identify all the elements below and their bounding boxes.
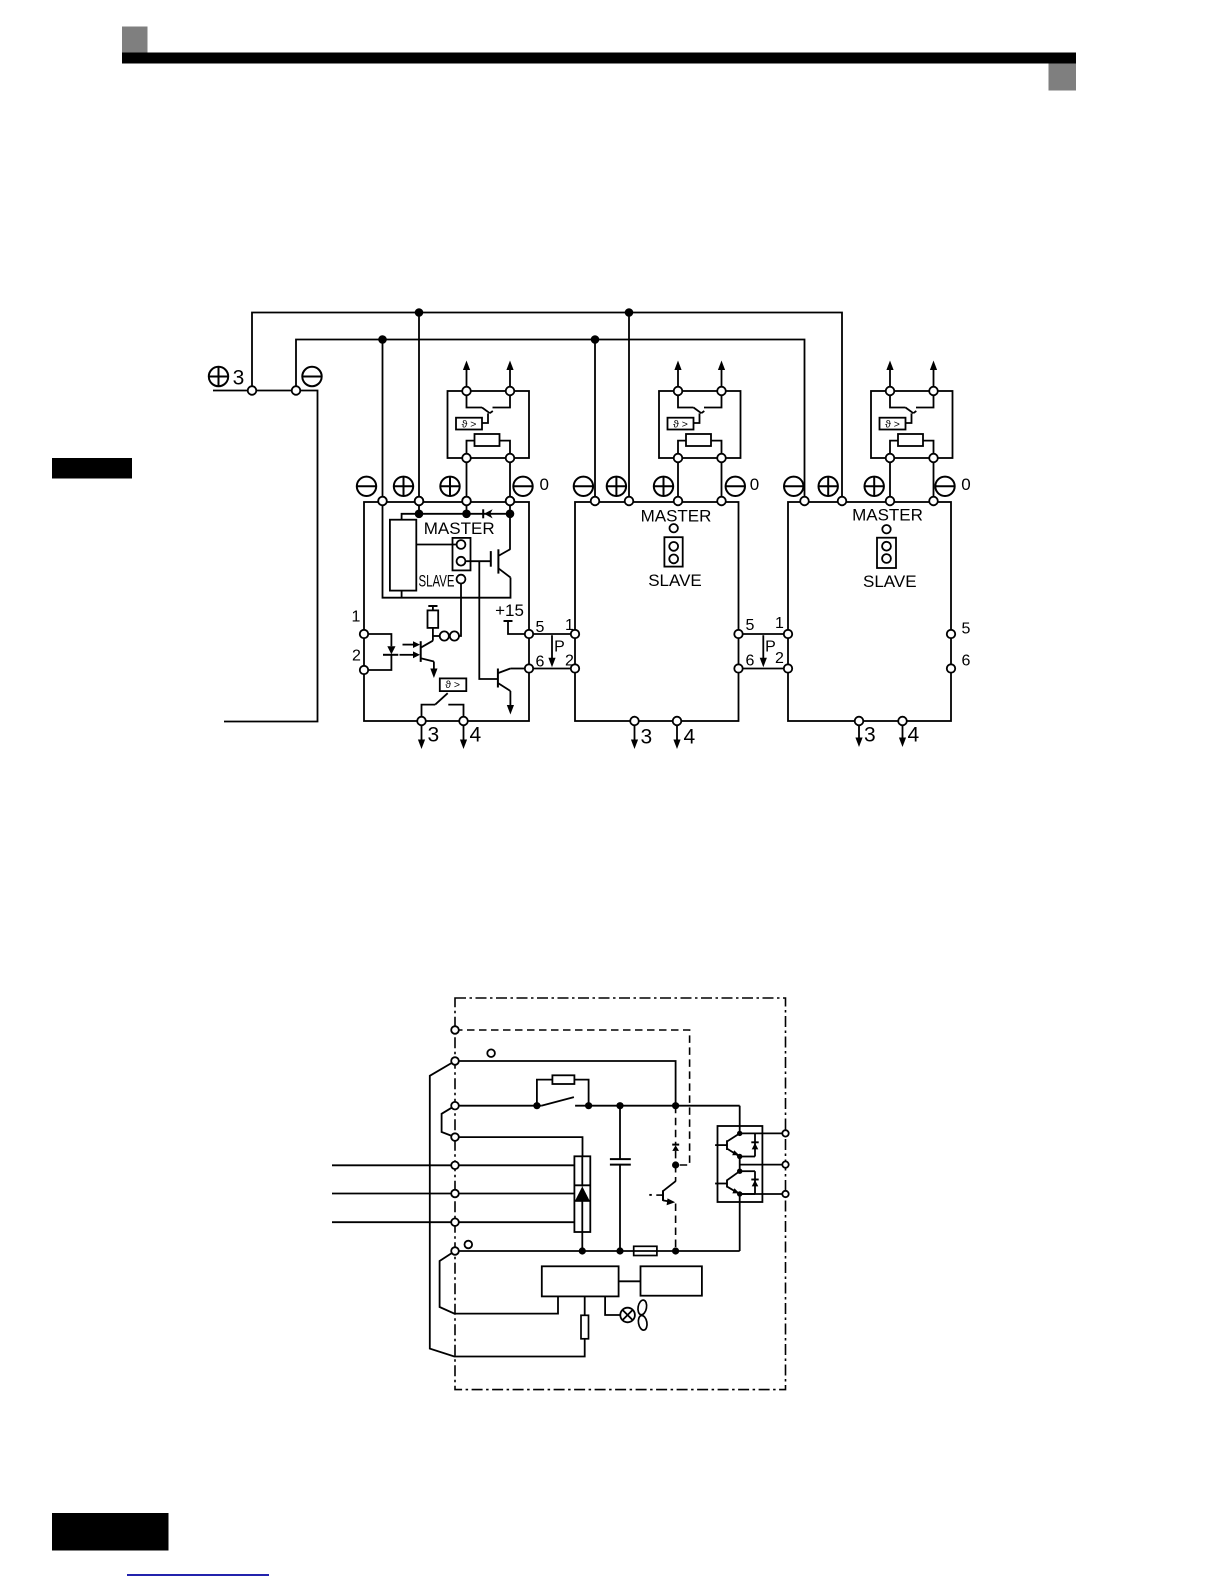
wire/arrow resistor unit 3 out R	[933, 369, 935, 387]
junction on bus1 to unit2	[625, 308, 634, 317]
svg-text:6: 6	[746, 653, 755, 670]
wire stubs from terminals into unit1	[418, 502, 420, 514]
master pin circle unit3	[882, 525, 890, 533]
wire: riser bus1 to unit2 terminal	[628, 313, 630, 502]
resistor element unit 2	[686, 434, 711, 446]
svg-text:4: 4	[908, 724, 920, 747]
lower freewheel diode	[754, 1171, 756, 1194]
smoothing capacitor	[619, 1106, 621, 1159]
unit 2 terminal symbols	[574, 477, 593, 496]
node on minus wire	[292, 386, 301, 395]
braking transistor	[663, 1181, 675, 1191]
optocoupler input circuit unit1	[368, 634, 391, 646]
wire: riser bus2 to unit2 terminal	[594, 340, 596, 502]
cooling fan	[605, 1296, 620, 1315]
pull-up resistor unit1	[428, 610, 439, 628]
resistor element unit 1	[475, 434, 500, 446]
wire jumper to gate / base branch unit1	[465, 560, 490, 562]
junction dots DC+	[533, 1102, 540, 1109]
wire link 6-2	[533, 668, 571, 670]
page header gray square right	[1049, 64, 1077, 91]
svg-text:ϑ >: ϑ >	[885, 418, 900, 430]
LED unit1	[387, 646, 395, 654]
svg-text:1: 1	[352, 608, 361, 625]
unit2 bottom terminals 3/4	[630, 717, 639, 726]
svg-text:4: 4	[684, 725, 696, 748]
thermal switch unit 3	[890, 395, 906, 407]
wires resistor unit 2 down to BU	[677, 462, 679, 501]
unit 3 top terminal circles	[800, 497, 809, 506]
wire/arrow resistor unit 1 out L	[466, 369, 468, 387]
three-phase input wires	[332, 1164, 574, 1166]
slave pin circle unit1	[457, 575, 466, 584]
page header gray square left	[122, 27, 148, 53]
jumper block unit1 (MASTER position)	[453, 538, 471, 571]
lower IGBT	[726, 1180, 728, 1188]
wire: drive terminal feed	[213, 391, 318, 722]
svg-text:5: 5	[962, 620, 971, 637]
svg-text:5: 5	[746, 617, 755, 634]
wire B1 to control board via fuse	[430, 1061, 585, 1357]
charging resistor branch	[537, 1080, 553, 1106]
svg-text:MASTER: MASTER	[641, 506, 712, 525]
module output U	[740, 1132, 783, 1134]
svg-text:1: 1	[565, 617, 574, 634]
svg-text:1: 1	[775, 615, 784, 632]
svg-text:6: 6	[962, 653, 971, 670]
page header black bar	[122, 53, 1076, 64]
wire: unit1 internal dc rail with diode	[402, 514, 510, 520]
svg-text:ϑ >: ϑ >	[462, 418, 477, 430]
P arrow (2)	[762, 635, 764, 659]
svg-text:SLAVE: SLAVE	[863, 572, 917, 591]
braking resistor unit 2 box	[659, 391, 741, 458]
control board block unit1	[390, 520, 416, 591]
unit 2 top terminal circles	[591, 497, 600, 506]
braking resistor unit 3 box	[871, 391, 953, 458]
gate drive board	[641, 1266, 702, 1295]
thermal relay box lower unit1	[440, 678, 467, 691]
braking chopper branch (dashed)	[675, 1106, 677, 1145]
svg-text:3: 3	[428, 724, 440, 747]
module output W	[740, 1193, 783, 1195]
terminal circles on enclosure border	[451, 1026, 459, 1034]
svg-text:2: 2	[352, 648, 361, 665]
terminal +3 symbol	[209, 367, 228, 386]
svg-text:4: 4	[470, 724, 482, 747]
wires resistor unit 1 down to BU	[466, 462, 468, 501]
junction on bus1 to unit1	[415, 308, 424, 317]
svg-text:3: 3	[864, 724, 876, 747]
thermal contact unit1	[422, 705, 436, 717]
output transistor Q2 unit1	[497, 669, 499, 688]
junction on bus2 to unit2	[591, 335, 600, 344]
control power supply board	[542, 1266, 619, 1296]
braking resistor unit 1 box	[448, 391, 530, 458]
svg-text:2: 2	[565, 653, 574, 670]
braking unit 1 box	[364, 502, 529, 721]
svg-text:3: 3	[233, 367, 245, 390]
IGBT Q1 unit1	[490, 551, 492, 567]
svg-text:ϑ >: ϑ >	[445, 679, 460, 691]
upper freewheel diode	[754, 1133, 756, 1156]
svg-text:2: 2	[775, 650, 784, 667]
unit3 bottom terminals 3/4	[855, 717, 864, 726]
junction dots unit1 rail	[415, 510, 424, 519]
svg-text:+15: +15	[495, 601, 524, 620]
wire link 5-1	[533, 633, 571, 635]
braking unit 3 box	[788, 502, 951, 721]
wire: unit1 internal loop (left edge / bottom)	[383, 502, 511, 598]
inverter IGBT module	[739, 1202, 741, 1251]
wire +2 terminal to rectifier	[455, 1137, 583, 1156]
P arrow	[551, 635, 553, 659]
terminal minus symbol	[302, 367, 321, 386]
bypass contactor blade	[541, 1097, 574, 1106]
connector circle pair unit1	[440, 631, 449, 640]
footer blue rule	[127, 1574, 269, 1576]
terminal circles resistor unit 3	[886, 387, 895, 396]
unit 1 terminal symbols	[357, 477, 376, 496]
thermal switch unit 2	[678, 395, 694, 407]
thermal relay box unit 1	[456, 418, 482, 430]
upper IGBT	[726, 1140, 728, 1150]
unit1 right terminals 5/6	[525, 630, 533, 638]
unit 1 top terminal circles (over)	[378, 497, 387, 506]
sidebar black tab	[52, 458, 132, 479]
rectifier bridge	[574, 1156, 590, 1232]
svg-text:SLAVE: SLAVE	[648, 571, 702, 590]
resistor element unit 3	[898, 434, 923, 446]
wire node to connector circles unit1	[432, 628, 434, 636]
wire link 6-2 (2)	[743, 668, 784, 670]
svg-text:MASTER: MASTER	[852, 506, 923, 525]
footer black page-number block	[52, 1513, 169, 1551]
unit 1 top terminal circles	[378, 497, 387, 506]
svg-text:0: 0	[539, 475, 548, 494]
wire B1 terminal to DC+	[455, 1061, 676, 1106]
unit1 bottom terminals 3/4	[417, 717, 426, 726]
wire/arrow resistor unit 2 out L	[677, 369, 679, 387]
terminal circles resistor unit 1	[462, 387, 471, 396]
wire/arrow resistor unit 3 out L	[889, 369, 891, 387]
terminal circles 5/6 unit3	[947, 630, 955, 638]
terminal circle B2 label pos	[465, 1241, 473, 1249]
control fuse	[581, 1315, 589, 1339]
thermal relay box unit 3	[880, 418, 906, 430]
wire/arrow resistor unit 1 out R	[509, 369, 511, 387]
svg-text:0: 0	[961, 475, 970, 494]
svg-text:3: 3	[641, 725, 653, 748]
svg-text:ϑ >: ϑ >	[673, 418, 688, 430]
wire board to jumper unit1	[416, 544, 457, 546]
wire slave circle down to opto node unit1	[459, 584, 461, 637]
+15 rail symbol to pin5 unit1	[504, 620, 513, 622]
wire: riser bus2 to unit1 terminal	[382, 340, 384, 502]
external jumper +1/+2	[442, 1106, 455, 1137]
chopper freewheel diode	[672, 1144, 679, 1146]
terminal circles 1/2 unit1	[360, 630, 368, 638]
built-in braking unit dashed outline	[455, 1030, 690, 1165]
wire DC- to control board	[440, 1251, 558, 1314]
module output V	[739, 1157, 741, 1172]
wire: DC bus 2	[296, 340, 805, 502]
terminal circles 5/6 unit2	[734, 630, 742, 638]
thermal switch unit 1	[467, 395, 483, 407]
braking unit 2 box	[575, 502, 739, 721]
terminal circles 1/2 unit2	[571, 630, 579, 638]
svg-text:P: P	[554, 638, 565, 655]
terminal circle B1 label pos	[487, 1049, 495, 1057]
wire: DC bus 1 (top)	[252, 313, 842, 502]
wire link 5-1 (2)	[743, 633, 784, 635]
node on +3 wire	[248, 386, 257, 395]
output terminal circles	[782, 1130, 788, 1136]
wire DC- bus	[455, 1250, 740, 1252]
svg-text:SLAVE: SLAVE	[419, 571, 455, 590]
light arrows unit1	[403, 644, 415, 646]
master pin circle unit2	[670, 524, 678, 532]
wire/arrow resistor unit 2 out R	[721, 369, 723, 387]
svg-text:MASTER: MASTER	[424, 519, 495, 538]
terminal circles resistor unit 2	[674, 387, 683, 396]
diode D1 unit1 (on rail)	[482, 509, 484, 518]
terminal circles 1/2 unit3	[784, 630, 792, 638]
wire: riser bus1 to unit1 terminal	[418, 313, 420, 502]
junction on bus2 to unit1	[378, 335, 387, 344]
unit 3 terminal symbols	[784, 477, 803, 496]
wire DC+ bus	[455, 1105, 541, 1107]
wires resistor unit 3 down to BU	[889, 462, 891, 501]
phototransistor unit1	[420, 641, 422, 662]
jumper block unit2 (SLAVE position)	[664, 537, 682, 566]
DC bus fuse	[634, 1246, 657, 1255]
drive enclosure dash-dot border	[455, 998, 786, 1390]
thermal relay box unit 2	[668, 418, 694, 430]
svg-text:0: 0	[750, 475, 759, 494]
jumper block unit3 (SLAVE position)	[877, 538, 896, 568]
